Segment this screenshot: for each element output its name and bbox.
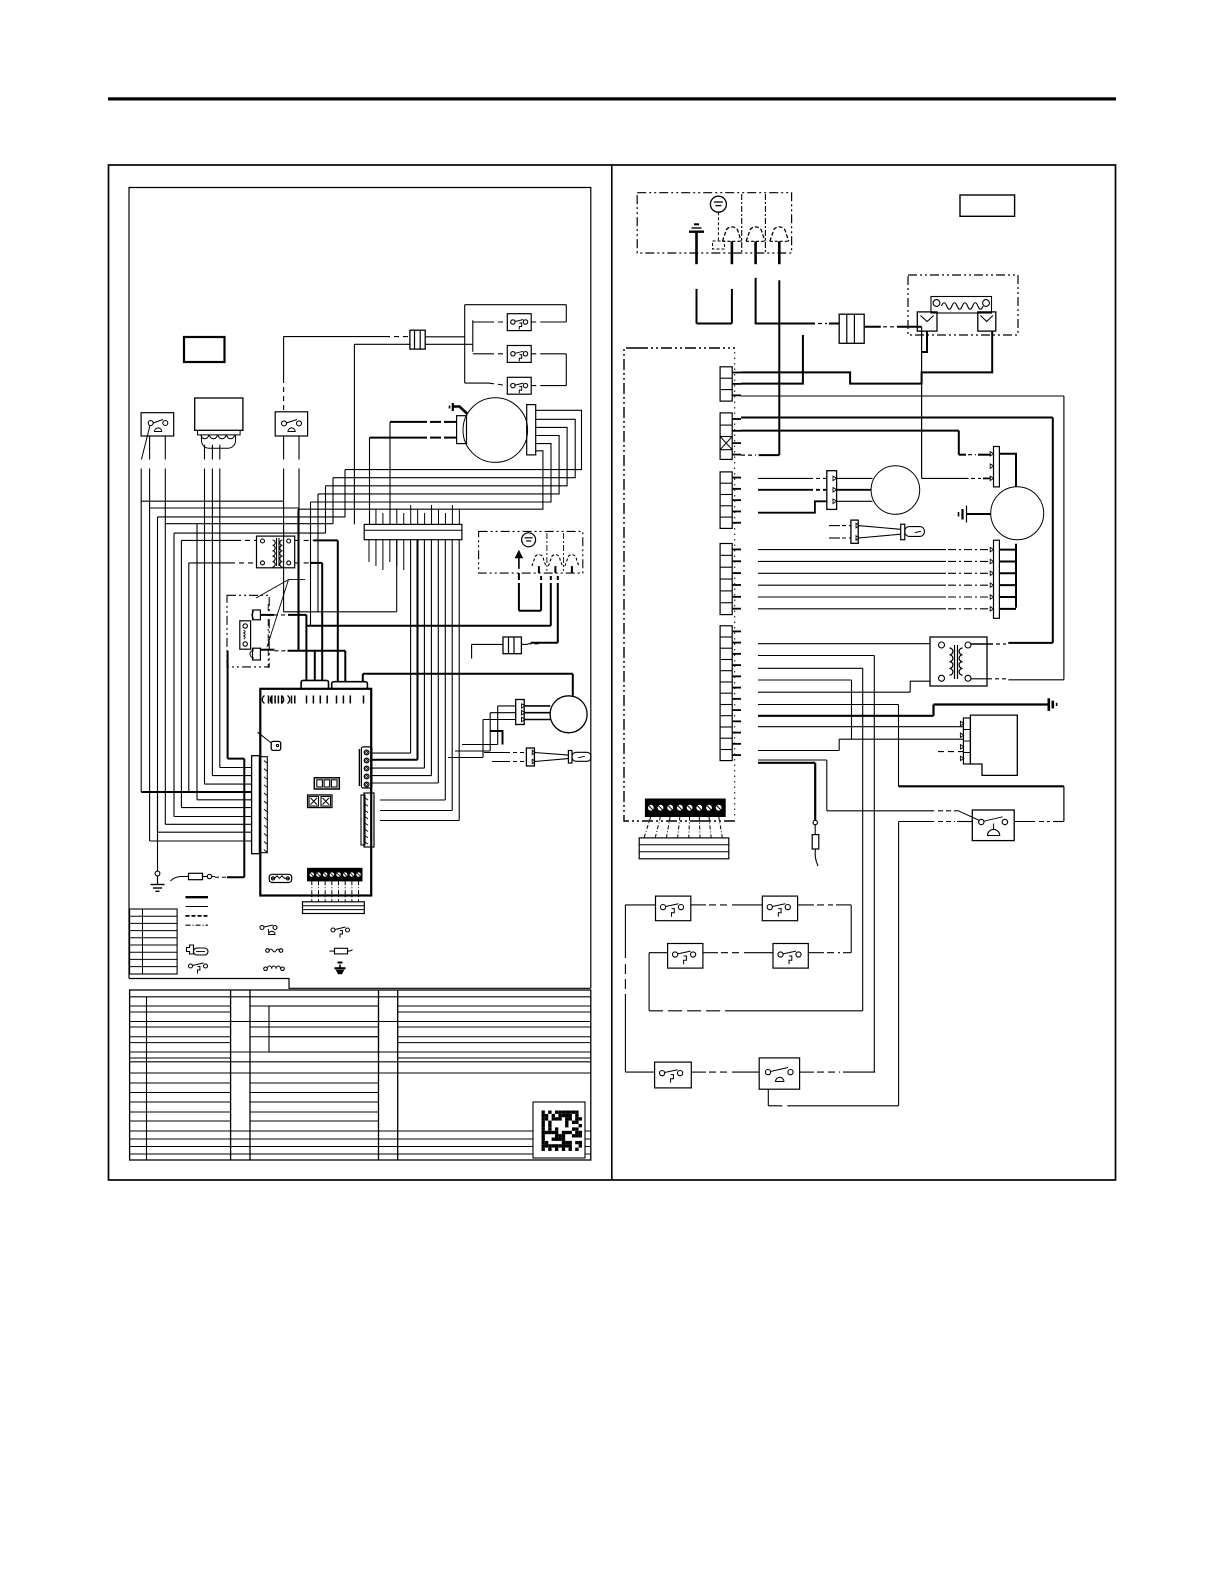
dash-dot stub near D1: [267, 604, 269, 668]
M4 ground symbol: [958, 512, 960, 517]
wire relay to top bus: [283, 336, 285, 378]
wire run 680 drop: [758, 679, 852, 681]
wire run 704 thin: [758, 704, 899, 706]
SW3 SW4 leads: [649, 952, 668, 954]
M4 strip bus lower: [1015, 544, 1017, 608]
wire run 668 drop: [758, 667, 863, 669]
BD1 gas valve circle: [710, 196, 726, 212]
panel divider line: [611, 165, 613, 1180]
BD1 burner electrodes: [722, 227, 741, 241]
wire C2 to bus elbow: [528, 643, 540, 645]
dip switch block: [308, 795, 333, 808]
CB1 pins top: [375, 509, 377, 524]
M1 left leads: [430, 421, 441, 423]
D2 flame electrodes: [532, 555, 546, 567]
inducer motor M2 left panel: [550, 696, 587, 733]
legend line sample dashdot: [186, 924, 209, 926]
limit switch SW4: [773, 944, 808, 969]
igniter HSI1: [526, 748, 534, 766]
legend resistor: [335, 948, 348, 954]
limit switch LS1: [507, 314, 531, 331]
legend switch type2: [331, 928, 335, 932]
CB1 pins bottom: [368, 540, 370, 562]
TB1 dashed drops: [311, 881, 313, 902]
wire thick bus 626: [306, 625, 550, 627]
label box (model/voltage note): [184, 337, 225, 362]
wire DS terminals down: [149, 436, 151, 841]
thick elbow near M2: [490, 731, 503, 745]
twinning interface dashed box D2: [479, 531, 583, 573]
edge terminal cells column: [720, 367, 732, 401]
board callout chip: [258, 732, 272, 743]
wire T1 lead drop: [188, 563, 190, 792]
legend coil wavy: [266, 949, 270, 953]
wire run EAC pin2: [758, 750, 839, 752]
legend thermal switch: [260, 926, 264, 930]
D2 arrow symbol: [516, 552, 522, 569]
wire igniter circuit thin: [922, 477, 969, 479]
title block table grid: [130, 990, 591, 1160]
blower motor M1: [463, 398, 528, 463]
BD2 block stems: [922, 331, 927, 352]
inducer motor M3: [871, 466, 920, 515]
combustion motor M4: [991, 487, 1044, 540]
wire bundle left verticals: [140, 467, 142, 792]
connector block J3 lower: [253, 648, 261, 660]
capacitor C2: [503, 637, 521, 654]
wire psw left lead from drop: [898, 822, 900, 1106]
wire top bus to capacitor: [284, 336, 385, 338]
wire D2 to bus thick: [550, 576, 552, 583]
outer border frame of schematic sheet: [109, 165, 1116, 1180]
wire top bus horizontal: [465, 304, 567, 306]
BD2 coil: [931, 297, 992, 314]
wire run to pressure switch: [758, 759, 827, 761]
legend inductor: [264, 967, 268, 971]
T2 right stubs: [971, 643, 993, 645]
wire run to T2 primary bottom: [758, 691, 910, 693]
SW1 SW2 leads: [625, 904, 655, 906]
legend switch symbol: [189, 964, 193, 968]
M2 connector 3pin: [516, 700, 525, 725]
power plug connector P1: [195, 398, 243, 430]
wire bottom bus 1010: [649, 1010, 730, 1012]
inducer connector 3pin right: [827, 471, 837, 510]
flame sensor FS1: [814, 763, 816, 821]
wire zigzag valve feed thick: [741, 331, 992, 384]
page top rule: [108, 97, 1116, 100]
limit switch LS3: [507, 377, 531, 394]
board tab T1: [301, 680, 328, 688]
wire thin bus 612: [284, 611, 397, 613]
wire inducer feed: [741, 430, 959, 432]
wire J2 to board thick: [260, 614, 274, 616]
QR datamatrix white frame: [533, 1102, 585, 1158]
wire run flame sensor thick: [758, 762, 815, 764]
wire junction horizontals upper: [141, 500, 283, 502]
rollout switch SW2: [762, 896, 797, 921]
inducer connector staircase: [758, 501, 827, 512]
M4 strip bus upper to motor: [999, 454, 1016, 487]
HSI1 leads: [513, 752, 526, 754]
C2 leads: [521, 643, 527, 645]
ground symbol GND1: [155, 871, 160, 876]
HSI2 leads: [829, 525, 840, 527]
wire thick loop mid: [741, 417, 1053, 419]
wire flame3 to C3: [755, 278, 757, 325]
D2 divider dashdot: [546, 533, 548, 571]
rollout switch SW1: [656, 896, 691, 921]
T1 primary leads: [181, 539, 236, 541]
TB2 dashed fanout: [644, 817, 651, 838]
wire run EAC pin3 stub: [938, 751, 963, 753]
BD1 circle dashed stem: [717, 212, 719, 241]
legend line sample thin: [186, 906, 209, 908]
LS3 leads: [465, 382, 489, 384]
wire bus 650 thick: [288, 650, 346, 652]
M1 right wires sweep: [345, 410, 582, 469]
enclosure dotted edge: [734, 352, 736, 817]
wire harness 6 lines: [758, 549, 946, 551]
board tab T2: [332, 682, 368, 689]
M4 connector strip upper: [994, 447, 1000, 487]
callout leader lines: [256, 580, 289, 598]
wire cap branch down: [353, 344, 355, 524]
jumper link W1: [269, 874, 292, 882]
wire bottom bus 1105: [768, 1105, 800, 1107]
limit switch LS2: [507, 346, 531, 363]
wire elbow to cells: [741, 335, 803, 384]
wire thick 674 run: [362, 674, 364, 682]
transformer T1: [257, 536, 295, 568]
legend capacitor polarized: [338, 962, 343, 964]
ground symbol GND3: [1048, 698, 1051, 711]
M2 connector staircase left: [498, 705, 516, 707]
wire run to T2 primary top: [758, 643, 930, 645]
wire C3 junction vertical: [921, 327, 923, 479]
relay blower door switch right: [275, 412, 307, 436]
wire break band: [135, 460, 307, 469]
pressure switch PS1: [972, 810, 1014, 841]
transformer T2: [930, 637, 987, 686]
legend key table: [130, 909, 178, 974]
burner assembly dashed box BD1: [637, 193, 791, 253]
left bus verticals bottom: [624, 905, 626, 958]
legend line sample dashed: [186, 915, 209, 917]
wire 786 thick run: [899, 785, 1064, 787]
wire run ground thick: [758, 715, 934, 717]
C1 leads: [425, 336, 465, 338]
BD1 divider dashdot lines: [741, 194, 743, 252]
board right connector 5pin: [361, 747, 372, 788]
fuse F1 with lead: [171, 877, 179, 881]
BD2 connector blocks: [917, 312, 937, 331]
legend line sample thick: [186, 896, 209, 898]
U link wire: [519, 610, 541, 612]
wire J3 lead thick: [260, 649, 274, 651]
wire fuse to board thick: [215, 876, 227, 878]
M1 left lead drops to connector bar: [389, 422, 391, 525]
wire run EAC pin1: [758, 726, 963, 728]
terminal block TB1 black: [308, 868, 363, 881]
furnace enclosure dashdot right: [624, 348, 700, 821]
M1 sweep drops to buses: [344, 470, 346, 517]
wire flame4 long drop: [778, 280, 780, 455]
door interlock switch SW6: [759, 1058, 799, 1089]
wire relay left down: [283, 436, 285, 612]
wire switch left bus: [472, 320, 474, 352]
wire ground branch: [157, 792, 159, 871]
run capacitor C1: [410, 330, 425, 349]
wire flame1 U loop: [696, 289, 698, 324]
gas valve coil box BD2 dashdot: [908, 275, 1018, 335]
board edge curved ticks: [262, 696, 264, 704]
D2 indicator circle: [522, 533, 536, 547]
legend lamp symbol: [187, 945, 194, 954]
accessory connector enclosure D1 dash-dot: [227, 595, 269, 667]
M1 ground lead: [449, 406, 451, 409]
inducer connector feed rows: [758, 477, 813, 479]
title block nested box: [269, 1006, 379, 1052]
limit switch SW3: [668, 944, 703, 969]
seven segment display DSP: [314, 778, 339, 789]
left panel inner border: [129, 188, 591, 989]
BD1 ground electrode: [694, 223, 699, 225]
wire bundle bar to board right connector: [410, 540, 412, 753]
control board IFC outline: [260, 689, 371, 896]
wire run 655 drop: [758, 655, 874, 657]
board left edge connector: [252, 756, 260, 854]
SW6 bottom drop: [767, 1089, 769, 1106]
connector bar CB1: [364, 524, 462, 539]
plug wires down: [204, 445, 206, 784]
SW5 SW6 leads: [625, 1071, 654, 1073]
capacitor C3: [839, 314, 864, 343]
C3 right lead: [864, 326, 881, 328]
T1 secondary leads thick: [295, 539, 314, 541]
M4 connector strip lower: [994, 540, 1000, 618]
connector block J2 upper: [253, 610, 261, 620]
wire top bus vertical: [464, 305, 466, 383]
PS1 feed with actuator diagonal: [827, 810, 934, 812]
LS1 leads: [473, 321, 489, 323]
harness bar CB3: [639, 838, 729, 859]
harness bar CB2: [303, 902, 365, 914]
aux limit switch SW5: [655, 1062, 692, 1088]
wire staircase into board left connector: [220, 767, 252, 769]
accessory terminal box EAC: [970, 715, 1017, 775]
relay door switch DS left: [141, 413, 174, 436]
D2 wires down thick: [518, 573, 520, 580]
hot surface igniter HSI2: [851, 520, 858, 543]
terminal strip TB2 black: [645, 799, 725, 817]
wire psw right lead: [1014, 821, 1035, 823]
LS2 leads: [473, 353, 489, 355]
board right lower connector: [364, 793, 374, 847]
QR datamatrix code: [542, 1111, 545, 1114]
wire thin loop top: [741, 395, 1064, 397]
spec label box right: [960, 195, 1015, 216]
wire switch right bus: [565, 305, 567, 322]
wire relay right down: [298, 436, 300, 651]
board edge ticks: [268, 696, 270, 704]
DB connector J1: [240, 621, 251, 649]
wire D2 right down: [557, 576, 559, 583]
